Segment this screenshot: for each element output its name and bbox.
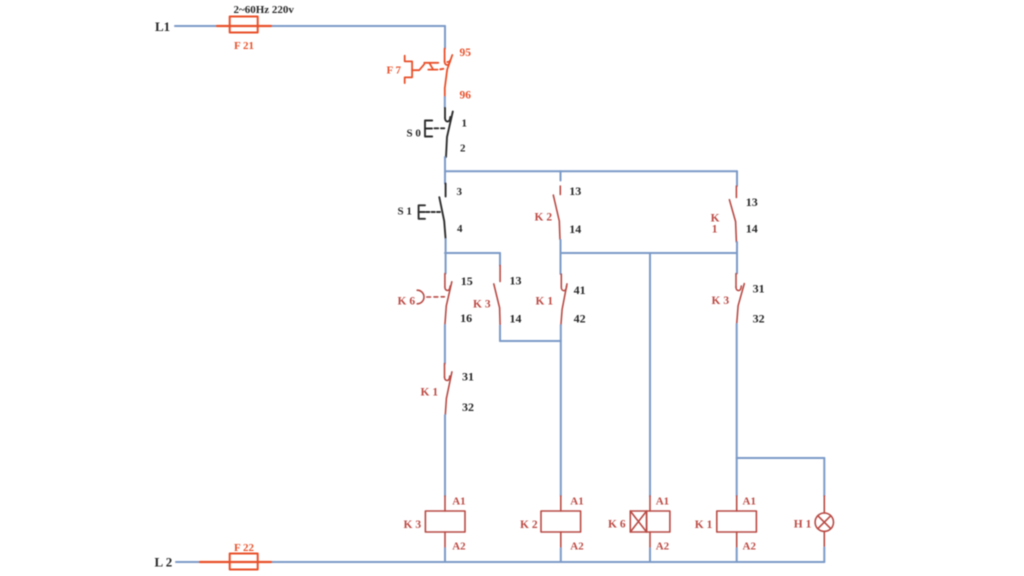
wire	[445, 239, 447, 274]
svg-text:14: 14	[510, 312, 522, 326]
wire H1 tee horizontal	[737, 457, 825, 459]
svg-text:A2: A2	[452, 540, 466, 552]
contact K2 13-14	[553, 186, 560, 240]
svg-text:F 22: F 22	[234, 542, 255, 554]
wire main vertical top	[444, 26, 446, 49]
svg-text:A1: A1	[743, 496, 756, 508]
contact F7 95-96	[445, 49, 453, 98]
wire rail 3 left	[445, 252, 500, 254]
wire rail 4	[500, 340, 561, 342]
svg-text:K 1: K 1	[536, 296, 554, 308]
fuse F22	[200, 554, 271, 570]
contact S0 1-2	[445, 108, 453, 157]
svg-text:14: 14	[746, 222, 758, 236]
wire L1 rail	[175, 25, 445, 27]
contact K1 31-32	[445, 364, 452, 416]
contact K3 13-14	[494, 266, 500, 326]
wire K3 stub bottom	[499, 326, 501, 342]
svg-text:16: 16	[460, 311, 472, 325]
svg-text:A2: A2	[743, 540, 757, 552]
wire K2 stub top	[560, 171, 562, 180]
wire K1 stub top	[560, 253, 562, 274]
actuator K6	[417, 290, 444, 304]
svg-text:42: 42	[574, 312, 586, 326]
overload F7	[405, 56, 450, 84]
wire K3 stub top right	[736, 253, 738, 274]
wire	[444, 325, 446, 364]
svg-text:K 3: K 3	[404, 519, 422, 531]
svg-text:31: 31	[753, 282, 765, 296]
svg-text:2~60Hz 220v: 2~60Hz 220v	[234, 4, 295, 16]
svg-text:1: 1	[462, 118, 468, 130]
svg-text:13: 13	[746, 195, 758, 209]
coil K1	[717, 496, 757, 548]
wire K1 stub bottom	[736, 242, 738, 253]
svg-text:K 1: K 1	[421, 386, 439, 398]
coil K2	[541, 496, 581, 548]
coil K6	[630, 496, 670, 548]
wire L2 rail	[176, 561, 824, 563]
wire	[560, 325, 562, 496]
svg-text:95: 95	[460, 47, 472, 59]
svg-text:A1: A1	[452, 496, 465, 508]
wire	[649, 548, 651, 562]
contact K3 31-32	[736, 274, 744, 325]
svg-text:13: 13	[569, 184, 581, 198]
fuse F21	[217, 17, 271, 33]
svg-text:K 2: K 2	[535, 212, 553, 224]
wire rail 3 right	[561, 252, 738, 254]
svg-text:A2: A2	[570, 540, 584, 552]
wire	[444, 415, 446, 496]
wire K1 stub top	[736, 171, 738, 186]
svg-text:K 3: K 3	[473, 299, 491, 311]
wire	[823, 548, 825, 563]
svg-text:A2: A2	[656, 540, 670, 552]
wire H1 vertical	[823, 458, 825, 496]
pushbutton S1	[419, 205, 440, 219]
contact K1 13-14	[729, 186, 736, 242]
svg-text:L 2: L 2	[155, 555, 173, 570]
wire	[444, 548, 446, 562]
wire K3 stub top	[499, 253, 501, 266]
wire	[444, 97, 446, 108]
svg-text:K 1: K 1	[695, 519, 713, 531]
svg-text:F 21: F 21	[234, 40, 254, 52]
svg-text:K 6: K 6	[608, 519, 626, 531]
wire	[560, 548, 562, 562]
svg-text:2: 2	[460, 143, 466, 155]
svg-text:S 1: S 1	[398, 206, 412, 218]
wire rail 2	[445, 170, 737, 172]
contact S1 3-4	[439, 184, 445, 240]
svg-text:S 0: S 0	[407, 128, 422, 140]
svg-text:3: 3	[457, 186, 463, 198]
contact K6 15-16	[445, 274, 452, 326]
svg-text:A1: A1	[656, 496, 669, 508]
svg-text:L1: L1	[155, 19, 170, 34]
svg-text:F 7: F 7	[387, 65, 402, 77]
wire K6 branch	[649, 253, 651, 496]
svg-text:15: 15	[461, 274, 473, 288]
svg-text:4: 4	[457, 223, 463, 235]
svg-text:K 6: K 6	[398, 295, 416, 307]
wire	[736, 324, 738, 496]
wire K2 stub bottom	[560, 240, 562, 253]
svg-text:K 2: K 2	[520, 519, 538, 531]
svg-text:14: 14	[569, 222, 581, 236]
svg-text:1: 1	[712, 224, 718, 236]
svg-text:H 1: H 1	[794, 519, 812, 531]
svg-text:K 3: K 3	[712, 295, 730, 307]
wire	[736, 548, 738, 562]
lamp H1	[815, 496, 833, 548]
svg-text:32: 32	[753, 312, 765, 326]
svg-text:32: 32	[462, 400, 474, 414]
svg-text:31: 31	[462, 370, 474, 384]
svg-text:13: 13	[510, 274, 522, 288]
pushbutton S0	[425, 121, 444, 137]
svg-text:96: 96	[460, 89, 472, 101]
contact K1 41-42	[561, 274, 567, 325]
wire	[444, 157, 446, 184]
coil K3	[425, 496, 465, 548]
svg-text:41: 41	[574, 283, 586, 297]
svg-text:A1: A1	[570, 496, 583, 508]
